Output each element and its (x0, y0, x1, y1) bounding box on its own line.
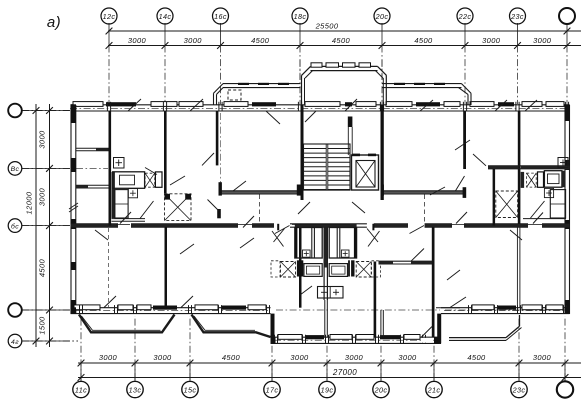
svg-text:4500: 4500 (222, 353, 241, 362)
svg-text:4500: 4500 (251, 36, 270, 45)
svg-text:3000: 3000 (290, 353, 309, 362)
svg-text:бс: бс (11, 222, 19, 230)
svg-text:17с: 17с (266, 386, 279, 395)
svg-text:12с: 12с (103, 12, 116, 21)
svg-text:16с: 16с (214, 12, 227, 21)
svg-text:3000: 3000 (153, 353, 172, 362)
svg-text:Вс: Вс (11, 166, 20, 173)
svg-text:21с: 21с (427, 386, 441, 395)
svg-text:22с: 22с (458, 12, 472, 21)
svg-text:15с: 15с (184, 386, 197, 395)
svg-text:1500: 1500 (38, 316, 47, 335)
svg-text:3000: 3000 (533, 353, 552, 362)
svg-text:3000: 3000 (533, 36, 552, 45)
svg-text:3000: 3000 (398, 353, 417, 362)
svg-text:20с: 20с (375, 12, 389, 21)
svg-text:3000: 3000 (99, 353, 118, 362)
svg-text:4г: 4г (11, 339, 19, 346)
svg-text:18с: 18с (294, 12, 307, 21)
svg-text:20с: 20с (374, 386, 388, 395)
svg-text:19с: 19с (321, 386, 334, 395)
svg-text:12000: 12000 (25, 191, 34, 214)
svg-text:13с: 13с (129, 386, 142, 395)
svg-text:3000: 3000 (38, 130, 47, 149)
svg-text:4500: 4500 (332, 36, 351, 45)
svg-text:3000: 3000 (38, 187, 47, 206)
svg-text:4500: 4500 (38, 258, 47, 277)
svg-text:11с: 11с (75, 386, 87, 395)
svg-text:25500: 25500 (315, 22, 339, 31)
svg-text:4500: 4500 (414, 36, 433, 45)
svg-text:23с: 23с (510, 12, 524, 21)
svg-text:27000: 27000 (332, 368, 357, 377)
svg-text:3000: 3000 (345, 353, 364, 362)
svg-text:3000: 3000 (184, 36, 203, 45)
svg-text:4500: 4500 (467, 353, 486, 362)
svg-text:14с: 14с (159, 12, 172, 21)
svg-text:3000: 3000 (482, 36, 501, 45)
svg-text:23с: 23с (512, 386, 526, 395)
svg-text:3000: 3000 (128, 36, 147, 45)
svg-text:а): а) (47, 14, 61, 31)
